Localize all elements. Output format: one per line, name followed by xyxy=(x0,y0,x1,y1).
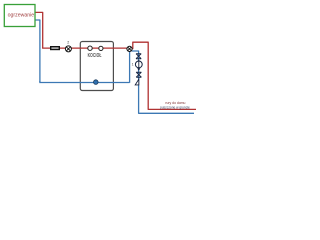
label 2 xyxy=(67,41,69,45)
label puszczone w gruncie xyxy=(160,105,190,109)
svg-text:2: 2 xyxy=(67,41,69,45)
pump P2 (circle with X) xyxy=(65,46,71,52)
wire: red supply from green box xyxy=(35,12,43,48)
label KOCIOL xyxy=(88,52,102,58)
boiler connection node (left circle) xyxy=(88,46,92,50)
4-way mixing valve M1 xyxy=(127,46,132,51)
wire: blue return run from house xyxy=(132,51,194,113)
svg-text:puszczone w gruncie: puszczone w gruncie xyxy=(160,105,190,109)
wire: blue return horizontal from green box corner to mixer bottom elbow xyxy=(40,81,130,83)
svg-text:ogrzewanie: ogrzewanie xyxy=(8,13,35,19)
valve V1 (bowtie) xyxy=(136,54,141,59)
valve V2 (bowtie) xyxy=(136,72,141,77)
svg-text:KOCIOŁ: KOCIOŁ xyxy=(88,52,102,58)
filter F1 xyxy=(50,46,60,50)
boiler connection node (right circle) xyxy=(99,46,103,50)
green box (heating circuit) xyxy=(4,5,35,27)
svg-text:rury do domu: rury do domu xyxy=(165,101,185,105)
wire: mixer bottom port riser xyxy=(129,51,131,83)
label 1 xyxy=(132,62,134,66)
wire: red main horizontal to mixer xyxy=(42,47,127,49)
wire: blue return from green box xyxy=(35,20,40,82)
boiler box KOCIOL xyxy=(80,42,113,91)
boiler return node (blue circle) xyxy=(94,80,99,85)
svg-text:1: 1 xyxy=(132,62,134,66)
check valve (flag) xyxy=(135,79,139,85)
label ogrzewanie xyxy=(8,13,35,19)
wire: red supply riser and run to house xyxy=(131,42,196,109)
pump P1 (circle with down arrow) xyxy=(135,60,142,71)
label rury do domu xyxy=(165,101,185,105)
